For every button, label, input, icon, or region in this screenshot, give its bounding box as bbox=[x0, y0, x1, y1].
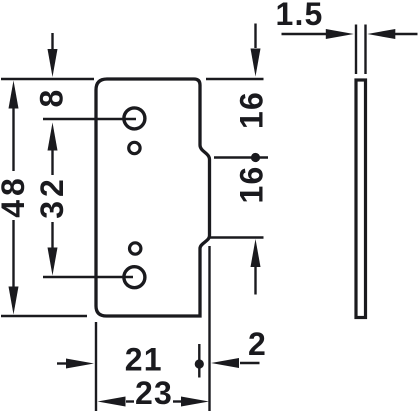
svg-text:48: 48 bbox=[0, 174, 31, 218]
svg-text:8: 8 bbox=[34, 89, 70, 108]
svg-text:16: 16 bbox=[234, 166, 270, 204]
svg-text:32: 32 bbox=[34, 175, 70, 219]
svg-text:1.5: 1.5 bbox=[275, 0, 323, 32]
svg-text:23: 23 bbox=[135, 375, 173, 411]
svg-text:16: 16 bbox=[234, 91, 270, 129]
svg-text:2: 2 bbox=[248, 326, 267, 362]
svg-text:21: 21 bbox=[125, 342, 163, 378]
